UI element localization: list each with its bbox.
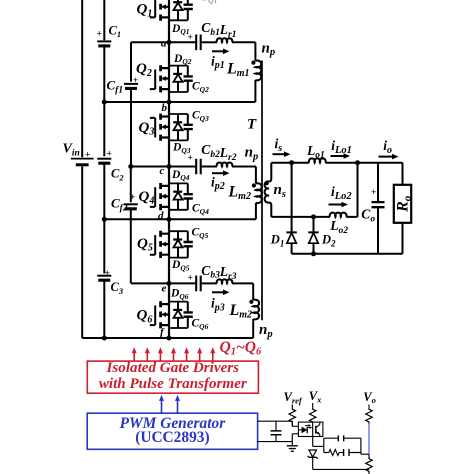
wire: switch leg Q6 to bottom rail through node f [168,328,170,338]
svg-text:C1: C1 [109,23,122,39]
svg-text:with Pulse Transformer: with Pulse Transformer [99,376,247,392]
transistor Q1 (MOSFET) [150,0,169,21]
optocoupler light arrows [305,425,311,427]
svg-text:np: np [259,322,273,340]
wire: Vo stub [368,405,370,408]
capacitor CQ2 (parallel capacitor of Q2) [184,66,193,92]
svg-text:np: np [262,40,276,58]
wire: node d horizontal (C2-C3 tap to winding 2 return) [104,218,256,220]
svg-text:Q2: Q2 [136,61,152,79]
current arrow io [379,156,394,158]
transistor Q4 (MOSFET) [150,183,169,210]
optocoupler LED [298,429,301,431]
svg-text:+: + [188,33,193,43]
wire: Lr1 to primary winding 1 [232,41,255,43]
inductor Lr2 (resonant inductor) [217,162,233,166]
svg-text:f: f [160,327,165,339]
svg-text:+: + [105,269,110,279]
zener diode Dz [308,450,318,459]
svg-text:Lm2: Lm2 [229,302,253,321]
wire: cap rail C3 to bottom rail [103,280,105,338]
svg-text:CQ4: CQ4 [192,203,209,216]
svg-text:d: d [158,210,164,222]
diode DQ2 (body diode of Q2) [173,66,182,92]
wire: Lr3 to primary winding 3 [232,282,253,284]
wire: node a horizontal (Cf1 rail to switch leg) [131,41,169,43]
box: Isolated Gate Drivers with Pulse Transformer [87,361,258,393]
junction: output top node [355,160,360,165]
wire: Ro bottom to rectifier bottom rail [402,223,404,254]
svg-text:Q5: Q5 [137,236,153,254]
wire: winding 1 top stub [254,42,256,61]
svg-text:CQ2: CQ2 [192,81,209,94]
diode D2 (rectifier) [308,232,318,253]
svg-text:a: a [161,38,167,50]
red gate-drive arrow 7 to Q switches [212,352,214,361]
wire: Co bottom to rectifier bottom rail [377,208,379,254]
svg-text:C2: C2 [111,167,124,183]
optocoupler U-opto box [298,422,323,436]
svg-text:+: + [107,150,112,160]
wire: Vin negative rail down to bottom rail [81,166,83,338]
svg-text:Cf1: Cf1 [107,78,124,96]
svg-text:ip3: ip3 [211,296,225,314]
svg-text:T: T [247,116,257,132]
current arrow ip1 [212,50,225,52]
transistor Q3 (MOSFET) [150,114,169,141]
wire: branch 3 from node to blocking cap Cb3 [169,282,195,284]
wire: switch leg Q5 to Q6 through node e [168,258,170,302]
wire: Vo divider blue segment [368,424,370,455]
capacitor C3 [97,276,111,281]
red gate-drive arrow 2 to Q switches [146,352,148,361]
red gate-drive arrow 5 to Q switches [186,352,188,361]
node e (junction) [167,281,172,286]
phase dot of winding 3 [249,300,253,304]
capacitor CQ1 (parallel capacitor of Q1) [184,0,193,20]
svg-text:+: + [371,188,376,198]
svg-text:DQ5: DQ5 [171,259,190,272]
wire: Q6 group top and bottom rails [169,302,188,328]
capacitor CQ6 (parallel capacitor of Q6) [184,302,193,328]
diode DQ6 (body diode of Q6) [173,302,182,328]
svg-text:Cb1: Cb1 [201,20,220,38]
transistor Q6 (MOSFET) [150,301,169,328]
svg-text:(UCC2893): (UCC2893) [135,429,209,446]
current arrow ip3 [212,291,225,293]
svg-text:ip2: ip2 [211,174,225,192]
wire: D1 anode riser from secondary top node [291,163,293,232]
diode DQ1 (body diode of Q1) [173,0,182,20]
compensation network box wires [324,438,369,454]
wire: Cb3 to resonant inductor Lr3 [202,282,217,284]
capacitor Cb2 (series blocking cap) [196,159,201,175]
svg-text:np: np [245,145,259,163]
diode DQ3 (body diode of Q3) [173,114,182,140]
svg-text:CQ5: CQ5 [192,227,209,240]
svg-text:Co: Co [361,207,375,225]
current arrow ip2 [212,172,225,174]
wire: flying-cap rail Cf2 down to node e wire (crosses node d wire) [130,209,132,284]
wire: Lo1 to output node [325,162,402,164]
wire: secondary top wire to Lo1 [271,162,309,164]
svg-text:Q1: Q1 [137,2,153,20]
wire: flying-cap rail Cf1 to node c wire (crosses node b wire) [130,89,132,167]
node b (junction) [167,100,172,105]
wire: flying-cap rail from node a wire down to Cf1 [130,42,132,81]
capacitor CQ3 (parallel capacitor of Q3) [184,114,193,140]
svg-text:+: + [188,274,193,284]
resistor R-comp (bottom of comp box) [328,450,342,456]
wire: branch 1 from node to blocking cap Cb1 [169,41,195,43]
svg-text:Q6: Q6 [137,308,153,326]
node a (junction) [167,40,172,45]
svg-text:e: e [162,282,167,294]
svg-text:Lo1: Lo1 [306,143,325,161]
svg-text:Cb2: Cb2 [201,142,220,160]
junction: Cf1/Cf2 rail at node c wire [128,164,133,169]
junction: D2 on bottom rail [311,251,316,256]
capacitor C2 [97,159,111,164]
svg-text:+: + [97,30,102,40]
capacitor Cf2 [124,204,138,209]
current arrow is [273,153,286,155]
resistor Ro (load) [394,185,411,223]
wire: PWM box to ground bottom wire [258,441,293,443]
wire: switch leg Q3 to Q4 through node c [168,140,170,183]
svg-text:Lo2: Lo2 [329,218,348,236]
wire: Vref resistor to PWM feedback wire [292,424,298,427]
svg-text:Isolated Gate Drivers: Isolated Gate Drivers [106,360,240,376]
capacitor Cf1 [124,84,138,89]
red gate-drive arrow 3 to Q switches [159,352,161,361]
wire: cap rail C2 to C3 [103,163,105,273]
optocoupler phototransistor [315,426,317,434]
capacitor Cb1 (series blocking cap) [196,35,201,51]
wire: Vx resistor down through opto (collector/emitter line) [313,422,320,446]
wire: switch leg Q2 to Q3 through node b [168,92,170,114]
wire: output node down to Ro [402,163,404,184]
wire: Vx stub [312,403,314,408]
svg-text:Q4: Q4 [139,189,155,207]
svg-text:Vin: Vin [63,142,80,159]
svg-text:ns: ns [274,182,286,200]
wire: node e horizontal (Cf2 rail to node e) [131,282,169,284]
capacitor C-comp1 (top of comp box) [338,435,343,441]
svg-text:Q1~Q6: Q1~Q6 [220,339,262,358]
wire: Lo2 to vertical joining output node [346,163,357,217]
red gate-drive arrow 1 to Q switches [133,352,135,361]
wire: Q3 group top and bottom rails [169,114,188,140]
wire: switch leg Q1 to Q2 through node a [168,20,170,65]
capacitor CQ4 (parallel capacitor of Q4) [184,183,193,209]
resistor R-Vx [310,408,316,424]
svg-text:DQ2: DQ2 [173,53,192,66]
capacitor Cb3 (series blocking cap) [196,276,201,292]
wire: opto cathode to ground wire [292,434,298,446]
primary winding 2 (np, Lm2) [256,183,262,203]
red gate-drive arrow 4 to Q switches [173,352,175,361]
svg-text:io: io [383,138,392,156]
wire: switch leg Q4 to Q5 through node d [168,210,170,231]
primary winding 1 (np, Lm1) [255,61,261,81]
inductor Lo2 (output inductor 2) [330,213,347,217]
svg-text:CQ3: CQ3 [192,110,209,123]
primary winding 3 (np, Lm2) [253,300,259,320]
svg-text:D1: D1 [270,233,285,249]
wire: PWM box to opto top wire [258,421,293,426]
svg-text:Lr2: Lr2 [219,145,237,163]
svg-text:C3: C3 [111,280,124,296]
svg-text:Lm2: Lm2 [227,183,251,202]
resistor R-Vo-upper [366,408,372,424]
wire: secondary bottom riser [269,203,271,217]
wire: Cb2 to resonant inductor Lr2 [202,166,217,168]
svg-text:b: b [162,102,168,114]
wire: node b horizontal (C1-C2 tap to winding 1 return) [104,101,255,103]
svg-text:Cb3: Cb3 [201,263,220,281]
wire: rectifier bottom rail [292,253,403,255]
junction: D1 tap on secondary top wire [289,160,294,165]
wire: comp network to divider node [368,454,370,457]
wire: flying-cap rail node c to Cf2 [130,167,132,203]
red gate-drive arrow 6 to Q switches [199,352,201,361]
wire: cap rail C1 to C2 [103,46,105,156]
svg-text:iLo1: iLo1 [331,138,352,156]
capacitor C-pwm (decoupling) [275,421,277,441]
resistor R-Vref [289,408,295,424]
svg-text:is: is [275,136,283,154]
svg-text:iLo2: iLo2 [331,184,352,202]
wire: winding 2 bottom stub to node d wire [255,203,257,220]
wire: secondary bottom wire to Lo2 [271,216,330,218]
wire: Q5 group top and bottom rails [169,231,188,257]
svg-text:DQ4: DQ4 [171,169,190,182]
svg-text:Vref: Vref [284,390,303,405]
wire: bottom rail (Vin- to winding 3 return) [82,337,253,339]
wire: Co branch from output node [377,163,379,201]
svg-text:Vx: Vx [309,389,322,404]
battery Vin [71,159,94,165]
inductor Lr3 (resonant inductor) [217,279,233,283]
current arrow iLo2 [329,204,344,206]
transistor Q2 (MOSFET) [150,65,169,92]
diode DQ4 (body diode of Q4) [173,183,182,209]
capacitor C1 [97,41,111,46]
capacitor Co (output filter cap) [372,202,385,207]
wire: branch 2 from node to blocking cap Cb2 [169,166,195,168]
box: PWM Generator (UCC2893) [87,413,257,449]
wire: winding 3 top stub [252,283,254,300]
junction: D2 tap on secondary bottom wire [311,214,316,219]
node d (junction) [167,217,172,222]
svg-text:+: + [188,154,193,164]
transistor Q5 (MOSFET) [150,231,169,258]
wire: capacitor rail top segment (to C1) [103,0,105,40]
current arrow iLo1 [331,155,346,157]
wire: Vref stub [291,405,293,408]
node c (junction) [167,164,172,169]
svg-text:+: + [130,193,135,203]
wire: Vin positive rail (left) from top edge down to battery [81,0,83,157]
svg-text:+: + [85,151,90,161]
svg-text:Cf2: Cf2 [111,196,128,214]
wire: node c horizontal (Cf rail to node c) [131,166,169,168]
wire: winding 2 top stub [255,167,257,184]
resistor R-Vo-lower [366,457,372,473]
phase dot of winding 1 [251,61,255,65]
svg-text:Q3: Q3 [139,120,155,138]
capacitor CQ5 (parallel capacitor of Q5) [184,231,193,257]
svg-text:CQ6: CQ6 [192,318,209,331]
svg-text:Vo: Vo [363,390,376,405]
secondary winding ns [265,181,269,202]
svg-text:+: + [133,76,138,86]
wire: winding 1 bottom stub to node b wire [254,80,256,102]
capacitor C-comp2 (bottom of comp box) [344,449,349,456]
svg-text:DQ6: DQ6 [170,288,189,301]
svg-text:D2: D2 [321,233,336,249]
wire: Q2 group top and bottom rails [169,66,188,92]
inductor Lr1 (resonant inductor) [217,38,233,42]
wire: zener node to compensation network [313,445,324,447]
wire: Lr2 to primary winding 2 [232,166,256,168]
transformer core line (T) [261,61,263,321]
blue PWM arrow 2 to gate drivers [177,399,179,412]
diode D1 (rectifier) [286,232,296,253]
wire: secondary top riser [269,163,271,182]
junction: C1-C2 tap to node b wire [102,100,107,105]
ground symbol (feedback) [287,446,298,452]
phase dot of secondary winding [265,181,269,185]
wire: Q4 group top and bottom rails [169,183,188,209]
blue PWM arrow 1 to gate drivers [161,399,163,412]
svg-text:CQ1: CQ1 [201,0,218,5]
wire: D2 riser from secondary bottom node [313,217,315,232]
junction: C2-C3 tap to node d wire [102,217,107,222]
node f (junction) [167,336,172,341]
inductor Lo1 (output inductor 1) [309,158,326,162]
phase dot of winding 2 [252,183,256,187]
junction: C3 bottom on bottom rail [102,336,107,341]
wire: lower divider resistor to bottom edge [368,473,370,474]
wire: Cb1 to resonant inductor Lr1 [202,41,217,43]
svg-text:Lr1: Lr1 [219,22,237,40]
diode DQ5 (body diode of Q5) [173,231,182,257]
svg-text:Lm1: Lm1 [226,60,250,79]
svg-text:c: c [160,165,165,177]
wire: winding 3 bottom stub to bottom rail [252,319,254,338]
svg-text:ip1: ip1 [211,53,225,71]
wire: Q1 group top and bottom rails [169,0,188,20]
wire: zener to bottom wire [313,457,369,470]
